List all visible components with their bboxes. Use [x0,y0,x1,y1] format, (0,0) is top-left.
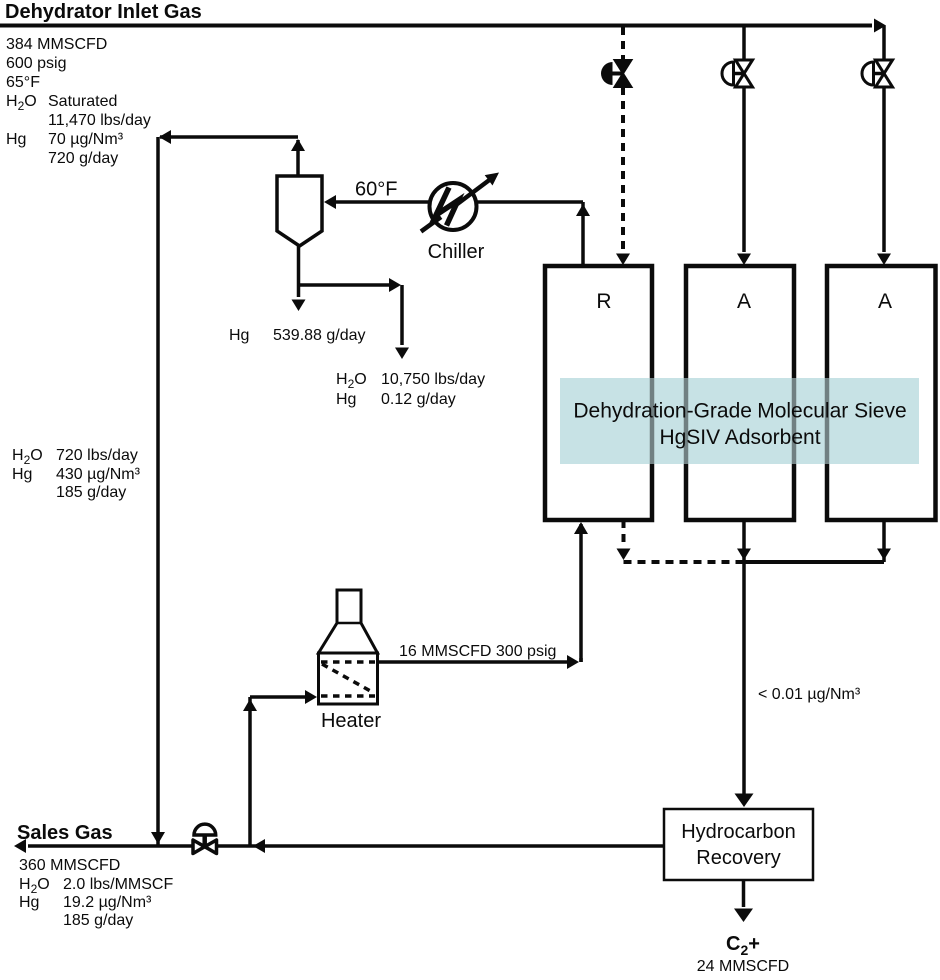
wire sales gas header [28,844,664,848]
wire separator overhead horizontal [160,135,298,139]
svg-text:65°F: 65°F [6,74,40,91]
svg-text:Hg: Hg [6,131,26,148]
heater H-1 [319,590,378,704]
svg-text:720 g/day: 720 g/day [48,150,118,167]
wire spent regen dashed drop from R [622,520,626,547]
label H2O 10,750 lbs/day Hg 0.12 g/day [336,371,485,408]
svg-text:Heater: Heater [321,710,381,732]
label sales gas conditions [19,857,173,929]
wire inlet gas main header line [0,24,872,28]
arrow A1 outlet down [737,549,751,561]
wire regen gas riser into R bottom [579,524,583,662]
svg-text:R: R [596,290,611,313]
arrow chiller riser up [576,204,590,216]
svg-text:Dehydrator Inlet Gas: Dehydrator Inlet Gas [5,1,202,23]
wire recovery bottoms outlet [742,880,746,907]
svg-text:< 0.01 µg/Nm³: < 0.01 µg/Nm³ [758,686,861,703]
wire separator top riser [296,140,300,176]
svg-text:A: A [737,290,751,313]
arrow heater riser up [243,699,257,711]
column A adsorbing bed 2 [827,266,936,520]
svg-text:Hydrocarbon: Hydrocarbon [681,821,796,843]
arrow separator overhead up [291,139,305,151]
wire separator bottoms outlet [297,246,301,297]
svg-text:2.0 lbs/MMSCF: 2.0 lbs/MMSCF [63,876,173,893]
wire regeneration dashed drop to valve [621,27,625,60]
svg-text:HgSIV Adsorbent: HgSIV Adsorbent [659,426,820,449]
arrow sales gas mid pointing left [253,839,265,853]
svg-text:Sales Gas: Sales Gas [17,822,113,844]
svg-text:70 µg/Nm³: 70 µg/Nm³ [48,131,124,148]
wire A2 outlet header [744,560,884,564]
wire sales gas to heater riser [248,697,252,846]
wire adsorber A1 inlet drop [742,27,746,61]
valve adsorber A2 inlet (open) [862,60,893,87]
wire chiller riser from R column [581,202,585,266]
arrow into R column down [616,254,630,266]
valve sales gas control valve [193,824,217,853]
svg-text:Hg: Hg [12,466,32,483]
arrow into separator left [324,195,336,209]
svg-text:720 lbs/day: 720 lbs/day [56,447,138,464]
svg-text:16 MMSCFD 300 psig: 16 MMSCFD 300 psig [399,643,556,660]
wire heater inlet horizontal [250,695,310,699]
svg-text:360 MMSCFD: 360 MMSCFD [19,857,120,874]
column R regenerating bed [545,266,652,520]
wire separator water branch horizontal [299,283,397,287]
wire spent regen dashed horizontal [624,560,745,564]
arrow into recovery down [735,794,754,808]
arrow C2+ down [734,909,753,923]
arrow from overhead vertical down onto sales line [151,832,165,844]
wire heater outlet corner vertical [579,658,583,662]
arrow water branch right [389,278,401,292]
arrow spent regen down [617,549,631,561]
svg-text:539.88 g/day: 539.88 g/day [273,327,366,344]
wire A1 outlet to recovery [742,520,746,804]
svg-text:Dehydration-Grade Molecular Si: Dehydration-Grade Molecular Sieve [573,400,906,423]
arrow heater outlet right [567,655,579,669]
wire separator overhead to sales gas vertical [156,137,160,846]
arrow inlet header right [874,19,886,33]
svg-text:185 g/day: 185 g/day [63,912,133,929]
svg-text:11,470 lbs/day: 11,470 lbs/day [48,112,151,129]
wire A2 outlet drop [882,520,886,562]
svg-text:Chiller: Chiller [428,241,485,263]
arrow sales gas left end [14,839,26,853]
arrow into A1 down [737,254,751,266]
box Hydrocarbon Recovery [664,809,813,880]
svg-text:19.2 µg/Nm³: 19.2 µg/Nm³ [63,894,152,911]
label Hg 539.88 g/day [229,327,366,344]
arrow regen gas up into R [574,522,588,534]
svg-text:0.12 g/day: 0.12 g/day [381,391,456,408]
svg-text:A: A [878,290,892,313]
wire chiller line horizontal [330,200,583,204]
adsorbent band underlay [560,378,919,464]
wire adsorber A2 inlet line [882,86,886,252]
column A adsorbing bed 1 [686,266,794,520]
svg-text:Saturated: Saturated [48,93,117,110]
arrow A2 outlet down [877,549,891,561]
wire adsorber A1 inlet line [742,86,746,252]
wire water branch vertical [346,284,402,286]
adsorbent band highlight overlay [560,378,919,464]
valve regeneration (closed, filled) [601,60,632,87]
svg-text:Hg: Hg [336,391,356,408]
valve adsorber A1 inlet (open) [722,60,753,87]
svg-text:24 MMSCFD: 24 MMSCFD [697,958,789,975]
label inlet gas conditions block [6,36,151,167]
svg-text:384 MMSCFD: 384 MMSCFD [6,36,107,53]
svg-text:600 psig: 600 psig [6,55,67,72]
arrow separator liquid down [292,300,306,312]
wire adsorber A2 inlet drop [882,26,886,62]
arrow into heater right [305,690,317,704]
wire regeneration dashed to R column [621,87,625,252]
svg-text:185 g/day: 185 g/day [56,484,126,501]
svg-text:Hg: Hg [229,327,249,344]
svg-text:10,750 lbs/day: 10,750 lbs/day [381,371,485,388]
arrow overhead line pointing left [159,130,171,144]
separator vessel [277,176,322,246]
label mid-left stream conditions [12,447,141,501]
svg-text:Hg: Hg [19,894,39,911]
svg-text:60°F: 60°F [355,179,397,201]
svg-text:Recovery: Recovery [696,847,780,869]
wire heater outlet to R column [378,660,573,664]
chiller E-1 [421,173,499,232]
svg-text:430 µg/Nm³: 430 µg/Nm³ [56,466,141,483]
arrow into A2 down [877,254,891,266]
arrow water branch down [395,348,409,360]
